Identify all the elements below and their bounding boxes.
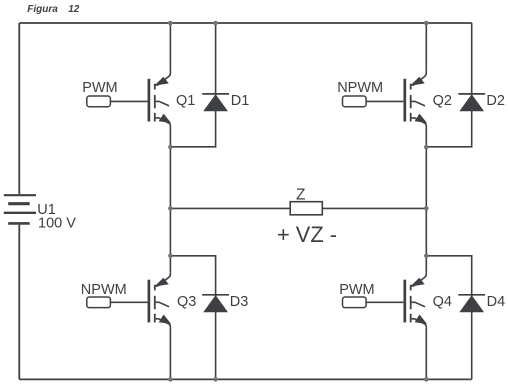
battery U1 plate long top bbox=[4, 194, 36, 196]
node bottom rail Q4 bbox=[424, 377, 429, 382]
wire left rail lower bbox=[18, 225, 20, 380]
svg-text:100 V: 100 V bbox=[38, 216, 76, 232]
wire D4 branch bbox=[426, 256, 471, 380]
diode D1 bbox=[202, 94, 229, 111]
battery U1 plate short bottom bbox=[8, 222, 30, 225]
transistor Q4 bbox=[405, 273, 427, 328]
transistor Q3 bbox=[149, 273, 171, 328]
diode D3 bbox=[202, 295, 229, 312]
wire D1 branch bbox=[170, 23, 215, 147]
signal box PWM Q4 bbox=[343, 297, 367, 308]
svg-text:Q3: Q3 bbox=[177, 294, 196, 310]
transistor Q2 bbox=[405, 72, 427, 127]
wire Q2 emitter to mid rail bbox=[425, 126, 427, 208]
node top rail Q1 bbox=[168, 21, 173, 26]
wire bottom rail bbox=[19, 378, 471, 380]
svg-text:Figura: Figura bbox=[27, 4, 58, 15]
node top rail D1 bbox=[213, 21, 218, 26]
wire D2 branch bbox=[426, 23, 471, 147]
node Q1 emitter junction bbox=[168, 145, 173, 150]
signal box NPWM Q3 bbox=[87, 297, 111, 308]
node Q4 collector junction bbox=[424, 254, 429, 259]
svg-text:NPWM: NPWM bbox=[81, 282, 127, 298]
resistor Z box bbox=[290, 202, 322, 215]
transistor Q1 bbox=[149, 72, 171, 127]
svg-text:Z: Z bbox=[296, 187, 305, 204]
node bottom rail Q3 bbox=[168, 377, 173, 382]
wire Q4 emitter bbox=[425, 327, 427, 379]
wire D3 branch bbox=[170, 256, 215, 380]
svg-text:Q2: Q2 bbox=[433, 93, 452, 109]
node bottom rail D3 bbox=[213, 377, 218, 382]
svg-text:D2: D2 bbox=[486, 93, 505, 109]
node top rail Q2 bbox=[424, 21, 429, 26]
signal box PWM Q1 bbox=[87, 96, 111, 107]
diode D2 bbox=[458, 94, 485, 111]
svg-text:D4: D4 bbox=[487, 294, 506, 310]
wire Q2 gate bbox=[366, 100, 403, 102]
svg-text:+ VZ -: + VZ - bbox=[277, 222, 337, 247]
wire Q3 collector bbox=[169, 208, 171, 272]
svg-text:D1: D1 bbox=[231, 93, 250, 109]
battery U1 plate long bottom bbox=[4, 212, 36, 214]
svg-text:D3: D3 bbox=[230, 294, 249, 310]
signal box NPWM Q2 bbox=[343, 96, 367, 107]
wire left rail upper bbox=[18, 23, 20, 194]
svg-text:Q1: Q1 bbox=[176, 93, 195, 109]
battery U1 plate short bbox=[8, 202, 30, 205]
wire top rail bbox=[19, 22, 471, 24]
svg-text:PWM: PWM bbox=[339, 282, 374, 298]
node mid rail right bbox=[424, 206, 429, 211]
wire Q1 gate bbox=[110, 100, 147, 102]
wire Q4 gate bbox=[366, 301, 403, 303]
diode D4 bbox=[458, 295, 485, 312]
wire Q3 emitter bbox=[169, 327, 171, 379]
svg-text:12: 12 bbox=[68, 4, 80, 15]
svg-text:PWM: PWM bbox=[82, 80, 117, 96]
node Q2 emitter junction bbox=[424, 145, 429, 150]
node Q3 collector junction bbox=[168, 254, 173, 259]
svg-text:NPWM: NPWM bbox=[337, 80, 383, 96]
wire mid rail load bbox=[170, 207, 426, 209]
wire Q2 collector bbox=[425, 23, 427, 72]
wire Q4 collector bbox=[425, 208, 427, 272]
wire Q1 emitter to mid rail bbox=[169, 126, 171, 208]
node mid rail left bbox=[168, 206, 173, 211]
wire Q3 gate bbox=[110, 301, 147, 303]
wire Q1 collector bbox=[169, 23, 171, 72]
svg-text:Q4: Q4 bbox=[433, 294, 452, 310]
